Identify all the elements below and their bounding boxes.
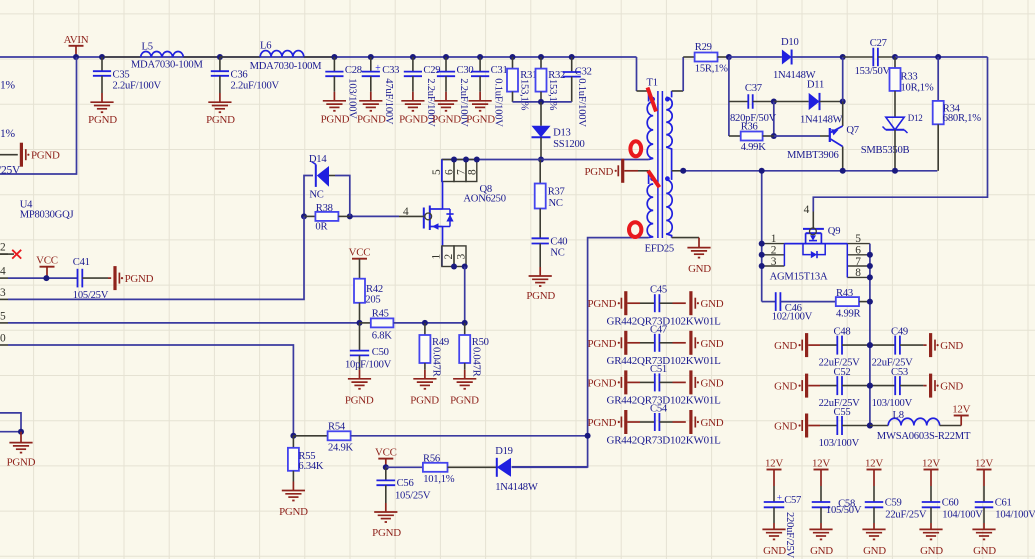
no-ERC red cross on pin 2 xyxy=(0,253,14,255)
svg-text:GND: GND xyxy=(810,545,833,557)
svg-text:GR442QR73D102KW01L: GR442QR73D102KW01L xyxy=(607,434,722,446)
svg-text:1%: 1% xyxy=(0,128,16,140)
svg-text:C30: C30 xyxy=(457,65,474,76)
resistor R34 xyxy=(937,57,939,101)
svg-text:PGND: PGND xyxy=(432,114,461,126)
transformer T1 top-right lead xyxy=(672,90,684,92)
svg-text:C51: C51 xyxy=(650,364,667,375)
svg-text:AON6250: AON6250 xyxy=(463,194,505,205)
capacitor C61 xyxy=(975,501,994,503)
capacitor C51 xyxy=(654,373,656,391)
resistor R43 xyxy=(836,297,859,306)
svg-text:12V: 12V xyxy=(975,458,993,470)
inductor L8 xyxy=(870,425,888,427)
svg-text:153,1%: 153,1% xyxy=(547,79,558,111)
svg-text:2.2uF/100V: 2.2uF/100V xyxy=(113,81,162,92)
svg-text:C45: C45 xyxy=(650,285,667,296)
svg-text:NC: NC xyxy=(550,248,564,259)
wire bus corner to transformer xyxy=(636,57,638,91)
svg-text:PGND: PGND xyxy=(584,166,613,178)
svg-text:R45: R45 xyxy=(372,309,389,320)
svg-text:24.9K: 24.9K xyxy=(328,443,354,454)
ground GND under C59 xyxy=(862,528,885,530)
svg-text:10R,1%: 10R,1% xyxy=(901,83,934,94)
svg-text:R33: R33 xyxy=(901,72,918,83)
ground PGND bottom-left xyxy=(9,442,32,444)
svg-text:1: 1 xyxy=(430,254,442,260)
svg-text:10pF/100V: 10pF/100V xyxy=(345,359,392,370)
svg-text:AGM15T13A: AGM15T13A xyxy=(770,272,828,283)
transformer T1 secondary winding bottom-right xyxy=(671,171,673,180)
svg-text:L5: L5 xyxy=(142,42,153,53)
diode D10 xyxy=(729,56,782,58)
svg-text:2: 2 xyxy=(771,245,777,257)
svg-text:/25V: /25V xyxy=(0,165,21,177)
mosfet Q9 symbol xyxy=(784,243,847,245)
svg-text:2: 2 xyxy=(0,242,6,254)
resistor R49 xyxy=(424,323,426,335)
svg-text:SMB5350B: SMB5350B xyxy=(861,145,910,156)
capacitor C32 xyxy=(569,54,575,60)
capacitor C29 xyxy=(410,54,416,60)
svg-text:22uF/25V: 22uF/25V xyxy=(885,510,927,521)
wire Q9 pin1 column xyxy=(761,171,763,302)
capacitor C55 xyxy=(836,416,838,435)
svg-text:0.047R: 0.047R xyxy=(470,347,481,378)
svg-text:103/100V: 103/100V xyxy=(819,438,860,449)
wire Q9 right column xyxy=(869,244,871,426)
svg-text:PGND: PGND xyxy=(372,527,401,539)
svg-text:C53: C53 xyxy=(891,367,908,378)
resistor R50 xyxy=(464,323,466,335)
wire R36 to Q7 base xyxy=(774,135,820,137)
svg-text:GND: GND xyxy=(940,340,963,352)
power port PGND left-edge xyxy=(0,154,18,156)
svg-text:GND: GND xyxy=(863,545,886,557)
svg-text:MDA7030-100M: MDA7030-100M xyxy=(131,59,204,70)
svg-text:PGND: PGND xyxy=(466,114,495,126)
svg-text:T1: T1 xyxy=(647,77,658,88)
diode D19 xyxy=(497,458,511,477)
wire U4 pin5 feedback rail xyxy=(8,322,360,324)
wire to R34 and gate loop xyxy=(895,56,988,58)
wire gate drive loop xyxy=(813,57,987,212)
red circle mark upper xyxy=(630,141,641,156)
node R43 junction xyxy=(867,299,873,305)
resistor R36 xyxy=(773,102,775,137)
inductor L5 xyxy=(104,56,141,58)
svg-text:C48: C48 xyxy=(834,327,851,338)
diode D13 SS1200 xyxy=(540,102,542,126)
capacitor C30 xyxy=(443,54,449,60)
svg-text:GND: GND xyxy=(973,545,996,557)
svg-text:+: + xyxy=(777,493,782,503)
svg-text:R38: R38 xyxy=(316,203,333,214)
svg-text:PGND: PGND xyxy=(88,114,117,126)
svg-text:C50: C50 xyxy=(372,347,389,358)
transformer T1 polarity dot left-bottom xyxy=(650,176,655,181)
svg-text:PGND: PGND xyxy=(357,114,386,126)
node C27 right junction xyxy=(892,54,898,60)
resistor R37 (NC) xyxy=(539,160,541,184)
node R29 right junction xyxy=(726,54,732,60)
svg-text:GND: GND xyxy=(701,377,724,389)
capacitor C58 xyxy=(812,501,831,503)
svg-text:102/100V: 102/100V xyxy=(772,312,813,323)
svg-text:EFD25: EFD25 xyxy=(645,243,674,254)
mosfet Q9 body diode xyxy=(803,244,811,255)
ground GND under C60 xyxy=(919,528,942,530)
wire U4 pin3 to D14/R38 xyxy=(8,216,304,299)
capacitor C49 xyxy=(870,344,895,346)
svg-text:6: 6 xyxy=(855,245,861,257)
svg-text:C40: C40 xyxy=(550,237,567,248)
ground PGND under C56 xyxy=(374,511,397,513)
power port 12V at L8 xyxy=(960,416,962,426)
node R54 R55 junction xyxy=(290,433,296,439)
wire R31-R32-C32 bottom rail xyxy=(513,101,572,103)
capacitor C48 xyxy=(836,336,838,355)
svg-text:PGND: PGND xyxy=(588,417,617,429)
svg-text:C59: C59 xyxy=(885,497,902,508)
svg-text:R43: R43 xyxy=(836,288,853,299)
ground PGND under C50 xyxy=(348,378,371,380)
svg-text:0R: 0R xyxy=(315,222,328,233)
transformer T1 aux winding bottom-left xyxy=(648,171,650,184)
wire stub left lower xyxy=(0,413,21,432)
svg-text:1: 1 xyxy=(771,233,777,245)
svg-text:6.8K: 6.8K xyxy=(372,331,392,342)
svg-text:+: + xyxy=(375,63,381,74)
transformer T1 polarity dot right-bottom xyxy=(665,176,670,181)
svg-text:GND: GND xyxy=(774,421,797,433)
red mark on T1 middle xyxy=(648,171,659,188)
svg-text:3: 3 xyxy=(771,256,777,268)
svg-text:C49: C49 xyxy=(891,327,908,338)
svg-text:101,1%: 101,1% xyxy=(423,474,455,485)
svg-text:NC: NC xyxy=(309,189,323,200)
svg-text:153/50V: 153/50V xyxy=(855,66,891,77)
svg-text:PGND: PGND xyxy=(410,395,439,407)
svg-text:D13: D13 xyxy=(553,128,571,139)
svg-text:C31: C31 xyxy=(491,65,508,76)
resistor R54 xyxy=(293,435,327,437)
capacitor C54 xyxy=(654,413,656,431)
svg-text:0.1uF/100V: 0.1uF/100V xyxy=(576,78,587,127)
wire top bus xyxy=(0,56,637,58)
red mark on T1 top xyxy=(648,88,657,112)
node D13 top junction xyxy=(538,99,544,105)
svg-text:MWSA0603S-R22MT: MWSA0603S-R22MT xyxy=(877,431,971,442)
transformer T1 bottom-right lead xyxy=(672,237,699,239)
svg-text:GND: GND xyxy=(688,263,711,275)
svg-text:NC: NC xyxy=(549,198,563,209)
capacitor C56 xyxy=(385,467,387,480)
capacitor C46 xyxy=(762,301,776,303)
ground PGND of C28 xyxy=(323,100,346,102)
svg-text:D14: D14 xyxy=(309,154,327,165)
capacitor C41 xyxy=(77,269,79,288)
wire aux winding bottom to lower circuit xyxy=(512,238,649,467)
ground PGND under R49 xyxy=(413,378,436,380)
svg-text:15R,1%: 15R,1% xyxy=(695,64,728,75)
ground PGND of C29 xyxy=(401,100,424,102)
node R42 bottom junction xyxy=(357,320,363,326)
svg-text:C35: C35 xyxy=(113,69,130,80)
resistor R55 xyxy=(292,436,294,448)
svg-text:205: 205 xyxy=(365,294,380,305)
zener diode D12 SMB5350B xyxy=(886,117,904,130)
red circle mark lower xyxy=(629,222,641,237)
ground GND under C61 xyxy=(972,528,995,530)
svg-text:PGND: PGND xyxy=(279,506,308,518)
svg-text:L8: L8 xyxy=(893,410,904,421)
svg-text:12V: 12V xyxy=(765,458,783,470)
resistor R29 xyxy=(683,56,694,58)
wire C37 rail left xyxy=(728,57,730,136)
mosfet Q9 right pin block xyxy=(847,243,870,245)
node Q9 left pins junctions xyxy=(759,241,765,247)
ground PGND of C35 xyxy=(90,101,113,103)
resistor R38 xyxy=(301,213,307,219)
svg-text:SS1200: SS1200 xyxy=(553,139,584,150)
ground PGND of C33 xyxy=(359,100,382,102)
svg-text:12V: 12V xyxy=(952,404,970,416)
svg-text:0.047R: 0.047R xyxy=(431,347,442,378)
svg-text:C28: C28 xyxy=(345,65,362,76)
node D11 right junction xyxy=(840,99,846,105)
svg-text:PGND: PGND xyxy=(588,298,617,310)
capacitor C35 xyxy=(99,54,105,60)
svg-text:R36: R36 xyxy=(741,122,758,133)
pin 4 of U4 xyxy=(0,277,8,279)
resistor R32 xyxy=(538,54,544,60)
svg-text:VCC: VCC xyxy=(36,255,58,267)
svg-text:4.99K: 4.99K xyxy=(741,142,767,153)
svg-text:C29: C29 xyxy=(423,65,440,76)
svg-text:VCC: VCC xyxy=(349,247,371,259)
capacitor C33 xyxy=(368,54,374,60)
svg-text:2.2uF/100V: 2.2uF/100V xyxy=(231,81,280,92)
ground PGND under C40 xyxy=(529,275,552,277)
transformer T1 core xyxy=(657,91,659,238)
node D10 right junction xyxy=(840,54,846,60)
node C52 junction xyxy=(867,383,873,389)
svg-text:GND: GND xyxy=(701,338,724,350)
inductor L6 xyxy=(220,56,260,58)
svg-text:12V: 12V xyxy=(812,458,830,470)
svg-text:PGND: PGND xyxy=(345,395,374,407)
capacitor C52 xyxy=(836,376,838,395)
svg-text:4: 4 xyxy=(0,266,6,278)
svg-text:PGND: PGND xyxy=(206,114,235,126)
svg-text:MMBT3906: MMBT3906 xyxy=(787,150,839,161)
svg-text:C56: C56 xyxy=(397,478,414,489)
ground PGND of C30 xyxy=(434,100,457,102)
svg-text:6: 6 xyxy=(443,169,455,175)
svg-text:2: 2 xyxy=(443,254,455,260)
svg-text:1N4148W: 1N4148W xyxy=(800,114,843,125)
svg-text:C54: C54 xyxy=(650,404,668,415)
svg-text:D19: D19 xyxy=(495,446,513,457)
svg-text:1%: 1% xyxy=(0,80,16,92)
svg-text:PGND: PGND xyxy=(31,150,60,162)
wire stub left lower2 xyxy=(0,431,21,433)
svg-text:C32: C32 xyxy=(575,66,592,77)
transformer T1 polarity dot right-top xyxy=(665,97,670,102)
svg-text:5: 5 xyxy=(855,233,861,245)
transformer T1 center-tap lead xyxy=(672,170,684,172)
mosfet Q8 AON6250 top pin block xyxy=(442,160,454,182)
capacitor C36 xyxy=(217,54,223,60)
svg-text:104/100V: 104/100V xyxy=(995,510,1035,521)
svg-text:104/100V: 104/100V xyxy=(942,510,983,521)
svg-text:C33: C33 xyxy=(382,65,399,76)
wire U4 pin4 to C41 xyxy=(8,277,78,279)
svg-text:VCC: VCC xyxy=(375,447,397,459)
svg-text:GND: GND xyxy=(701,417,724,429)
svg-text:PGND: PGND xyxy=(588,338,617,350)
ground PGND of C31 xyxy=(469,100,492,102)
ground GND under transformer xyxy=(687,247,710,249)
wire secondary top rail xyxy=(683,170,937,172)
svg-text:GND: GND xyxy=(763,545,786,557)
wire Q8 source to sense resistors xyxy=(464,267,466,323)
svg-text:C27: C27 xyxy=(870,38,887,49)
capacitor C50 xyxy=(359,323,361,351)
svg-text:R29: R29 xyxy=(695,42,712,53)
svg-text:6.34K: 6.34K xyxy=(298,461,324,472)
svg-text:105/50V: 105/50V xyxy=(826,505,862,516)
svg-text:680R,1%: 680R,1% xyxy=(943,113,981,124)
svg-text:C47: C47 xyxy=(650,324,667,335)
svg-text:PGND: PGND xyxy=(588,377,617,389)
ground PGND under R55 xyxy=(282,490,305,492)
transistor Q7 MMBT3906 xyxy=(829,128,831,142)
transformer T1 primary winding top-left xyxy=(648,91,650,102)
resistor R56 xyxy=(386,466,423,468)
svg-text:4.99R: 4.99R xyxy=(836,309,862,320)
svg-text:1N4148W: 1N4148W xyxy=(495,482,538,493)
svg-text:R37: R37 xyxy=(548,187,565,198)
resistor R31 xyxy=(510,54,516,60)
node C37 D11 junction xyxy=(771,99,777,105)
svg-text:C36: C36 xyxy=(231,69,248,80)
svg-text:Q7: Q7 xyxy=(846,125,858,136)
svg-text:5: 5 xyxy=(0,310,6,322)
svg-text:12V: 12V xyxy=(922,458,940,470)
svg-text:MDA7030-100M: MDA7030-100M xyxy=(250,61,323,72)
ground GND under C57 xyxy=(762,528,785,530)
svg-text:C57: C57 xyxy=(784,495,801,506)
svg-text:AVIN: AVIN xyxy=(64,34,89,46)
capacitor C31 xyxy=(477,54,483,60)
transformer T1 polarity dot left-top xyxy=(650,97,655,102)
svg-text:C41: C41 xyxy=(73,257,90,268)
ground GND under C58 xyxy=(809,528,832,530)
transformer T1 secondary winding top-right xyxy=(671,91,673,97)
svg-text:GND: GND xyxy=(774,381,797,393)
svg-text:MP8030GQJ: MP8030GQJ xyxy=(20,210,74,221)
svg-text:D12: D12 xyxy=(908,113,923,123)
svg-text:PGND: PGND xyxy=(526,290,555,302)
node C48 junction xyxy=(867,342,873,348)
capacitor C27 xyxy=(843,56,874,58)
svg-text:7: 7 xyxy=(855,256,861,268)
mosfet Q9 left pin block xyxy=(763,243,785,245)
resistor R33 xyxy=(894,57,896,68)
node AVIN junction xyxy=(73,54,79,60)
svg-text:12V: 12V xyxy=(865,458,883,470)
node Q8 source junctions xyxy=(451,264,457,270)
node Q8 drain junctions xyxy=(451,157,457,163)
capacitor C45 xyxy=(654,294,656,312)
resistor R42 xyxy=(354,279,365,303)
svg-text:105/25V: 105/25V xyxy=(395,490,431,501)
node Q9 right pins junctions xyxy=(867,252,873,258)
svg-text:PGND: PGND xyxy=(7,457,36,469)
svg-text:GND: GND xyxy=(920,545,943,557)
svg-text:8: 8 xyxy=(855,267,861,279)
mosfet Q8 bottom pin block xyxy=(442,246,454,267)
svg-text:103/100V: 103/100V xyxy=(872,398,913,409)
svg-text:R56: R56 xyxy=(423,454,440,465)
ground PGND under R50 xyxy=(453,378,476,380)
svg-text:C52: C52 xyxy=(834,367,851,378)
svg-text:D10: D10 xyxy=(781,37,799,48)
svg-text:GND: GND xyxy=(774,340,797,352)
wire Q8 gate xyxy=(350,215,399,217)
pin 0 of U4 xyxy=(0,344,8,346)
pin 5 of U4 xyxy=(0,322,8,324)
pin 3 of U4 xyxy=(0,298,8,300)
svg-text:D11: D11 xyxy=(807,80,824,91)
svg-text:3: 3 xyxy=(0,287,6,299)
wire U4 pin10 to R54/R55 xyxy=(8,345,293,436)
svg-text:153,1%: 153,1% xyxy=(519,79,530,111)
resistor R45 xyxy=(360,322,371,324)
svg-text:PGND: PGND xyxy=(450,395,479,407)
svg-text:7: 7 xyxy=(455,169,467,175)
wire U4 box left xyxy=(0,57,77,174)
wire R45 to R49 R50 xyxy=(425,322,465,324)
svg-text:GND: GND xyxy=(701,298,724,310)
capacitor C59 xyxy=(865,501,884,503)
svg-text:C61: C61 xyxy=(995,497,1012,508)
capacitor C53 xyxy=(870,385,895,387)
capacitor C47 xyxy=(654,334,656,352)
capacitor C28 xyxy=(331,54,337,60)
svg-text:C37: C37 xyxy=(745,83,762,94)
svg-text:R42: R42 xyxy=(366,284,383,295)
svg-text:R54: R54 xyxy=(328,422,346,433)
svg-text:GND: GND xyxy=(940,381,963,393)
svg-text:C55: C55 xyxy=(834,407,851,418)
diode D14 xyxy=(304,176,313,217)
svg-text:Q9: Q9 xyxy=(828,226,840,237)
svg-text:3: 3 xyxy=(455,254,467,260)
capacitor C60 xyxy=(922,501,941,503)
mosfet Q8 symbol xyxy=(441,160,443,182)
svg-text:4: 4 xyxy=(804,204,810,216)
svg-text:C60: C60 xyxy=(942,497,959,508)
diode D11 xyxy=(774,101,809,103)
capacitor C40 (NC) xyxy=(532,237,549,239)
capacitor C57 xyxy=(764,501,785,503)
node VCC C56 junction xyxy=(383,464,389,470)
node R54 right junction xyxy=(585,433,591,439)
node C55 junction xyxy=(867,423,873,429)
